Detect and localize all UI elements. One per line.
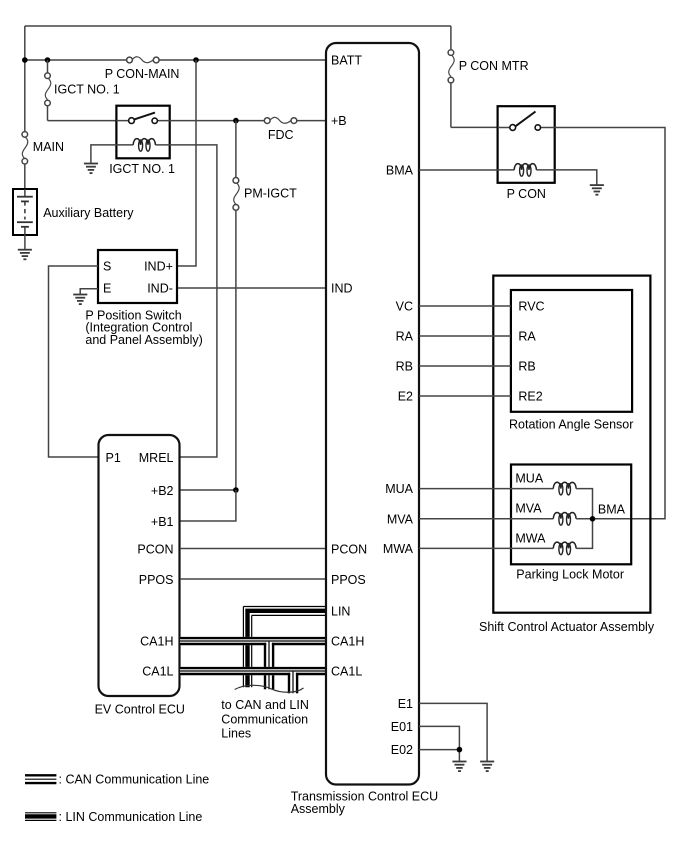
svg-text:BMA: BMA [386, 164, 414, 178]
relay K1 IGCT NO. 1 [116, 106, 169, 159]
wire VC [419, 305, 511, 307]
svg-text:and Panel Assembly): and Panel Assembly) [85, 333, 202, 347]
junction dot IND+ branch [193, 57, 199, 63]
wire MVA [419, 518, 553, 520]
CAN line CA1L [180, 667, 326, 675]
wire MUA coil to BMA node [576, 489, 592, 519]
svg-text:VC: VC [396, 300, 413, 314]
relay K2 P CON [498, 106, 555, 183]
CAN line CA1H [180, 637, 326, 645]
CAN CA1L drop vertical [289, 672, 297, 694]
junction dot IGCT branch [45, 57, 51, 63]
svg-text:CA1L: CA1L [331, 665, 362, 679]
wire left vertical from top rail to MAIN fuse [24, 26, 26, 132]
svg-text:RE2: RE2 [518, 390, 542, 404]
svg-text:Lines: Lines [221, 726, 251, 740]
svg-text:MVA: MVA [387, 512, 414, 526]
wire BMA to P CON coil [419, 169, 498, 171]
svg-text:E1: E1 [398, 697, 413, 711]
svg-text:PCON: PCON [331, 542, 367, 556]
svg-text:P CON MTR: P CON MTR [459, 59, 529, 73]
svg-text:+B: +B [331, 114, 347, 128]
svg-text:PM-IGCT: PM-IGCT [244, 187, 297, 201]
svg-text:CA1H: CA1H [331, 635, 364, 649]
svg-text:IND+: IND+ [144, 260, 173, 274]
LIN communication line elbow [243, 607, 325, 688]
wire E01 [419, 726, 459, 749]
wire relay coil to MREL [170, 145, 217, 457]
svg-text:MWA: MWA [515, 531, 546, 545]
svg-text:RA: RA [518, 330, 536, 344]
CAN CA1H drop vertical [265, 642, 273, 690]
coil motor U phase [553, 482, 576, 495]
ground P CON coil [590, 185, 604, 195]
svg-text:MVA: MVA [515, 502, 542, 516]
svg-text:RB: RB [518, 360, 535, 374]
wire P CON coil to ground [555, 170, 597, 185]
wire RB [419, 365, 511, 367]
wire horizontal rail y=60 to BATT [25, 59, 326, 61]
svg-text:Assembly: Assembly [291, 802, 346, 816]
svg-text:E: E [103, 282, 111, 296]
coil motor W phase [553, 542, 576, 555]
ground relay coil [84, 164, 98, 174]
wire top battery rail [25, 25, 451, 27]
svg-text:Parking Lock Motor: Parking Lock Motor [516, 568, 624, 582]
ground battery [18, 250, 32, 260]
svg-text:CA1H: CA1H [140, 635, 173, 649]
svg-text:FDC: FDC [268, 128, 294, 142]
fuse P CON-MAIN [127, 57, 160, 63]
legend CAN line sample [25, 775, 56, 783]
wire MWA [419, 547, 553, 549]
svg-text:RB: RB [396, 360, 413, 374]
svg-text:+B2: +B2 [151, 484, 174, 498]
wire relay coil to ground [91, 145, 117, 164]
svg-text:IND: IND [331, 282, 353, 296]
svg-text:RVC: RVC [518, 300, 544, 314]
junction dot +B2/+B1 [233, 487, 239, 493]
fuse P CON MTR [448, 50, 454, 83]
wire +B2 [180, 489, 236, 491]
svg-text:MWA: MWA [383, 542, 414, 556]
wire MAIN fuse to battery [24, 164, 26, 189]
svg-text:P CON: P CON [507, 187, 546, 201]
svg-text:PPOS: PPOS [331, 573, 366, 587]
svg-text:Auxiliary Battery: Auxiliary Battery [43, 206, 134, 220]
svg-text:: CAN Communication Line: : CAN Communication Line [59, 772, 210, 786]
svg-text:MUA: MUA [515, 471, 543, 485]
EV Control ECU box U2 [99, 435, 180, 696]
svg-text:E2: E2 [398, 390, 413, 404]
wire P CON switch to motor BMA [555, 128, 665, 519]
wire IND- to IND [178, 287, 326, 289]
wire PM-IGCT branch vertical [235, 121, 237, 490]
svg-text:RA: RA [396, 330, 414, 344]
Rotation Angle Sensor box U3 [511, 290, 632, 412]
legend LIN line sample [25, 813, 56, 821]
fuse FDC [264, 117, 296, 123]
svg-text:P1: P1 [106, 451, 121, 465]
ground E1 [480, 762, 494, 772]
junction dot FDC / PM-IGCT [233, 118, 239, 124]
wire IGCT NO.1 fuse branch [48, 60, 116, 121]
svg-text:IND-: IND- [147, 282, 173, 296]
wire IND+ branch [178, 60, 197, 266]
svg-text:IGCT NO. 1: IGCT NO. 1 [109, 162, 175, 176]
wire RA [419, 335, 511, 337]
wire E pin to ground [80, 289, 98, 295]
svg-text:E02: E02 [391, 743, 413, 757]
svg-text:BATT: BATT [331, 54, 362, 68]
svg-text:LIN: LIN [331, 604, 350, 618]
svg-text:PPOS: PPOS [139, 573, 174, 587]
ground E02 [452, 762, 466, 772]
wire PPOS [180, 578, 326, 580]
svg-text:MUA: MUA [385, 482, 413, 496]
fuse MAIN [22, 132, 28, 164]
Parking Lock Motor box M1 [511, 465, 631, 565]
wire battery to ground [24, 235, 26, 250]
svg-text:Communication: Communication [221, 712, 308, 726]
battery B auxiliary [13, 189, 37, 235]
wire +B1 [180, 490, 236, 521]
coil motor V phase [553, 512, 576, 525]
svg-text:BMA: BMA [598, 502, 626, 516]
svg-text:EV Control ECU: EV Control ECU [95, 703, 185, 717]
svg-text:P CON-MAIN: P CON-MAIN [105, 67, 180, 81]
wire MUA [419, 488, 553, 490]
svg-text:CA1L: CA1L [142, 665, 173, 679]
squiggle break mark [235, 685, 304, 692]
junction dot left rail [22, 57, 28, 63]
svg-text:S: S [103, 260, 111, 274]
junction dot E01/E02 [457, 747, 463, 753]
wire FDC to +B pin [297, 120, 326, 122]
fuse PM-IGCT [233, 178, 239, 211]
wire P CON MTR from top rail [451, 26, 497, 127]
junction dot BMA node [590, 516, 596, 522]
switch SW1 P position switch box [98, 250, 177, 303]
ground E pin [73, 295, 87, 305]
svg-text:IGCT NO. 1: IGCT NO. 1 [54, 83, 120, 97]
fuse IGCT NO. 1 [45, 73, 51, 106]
svg-text:+B1: +B1 [151, 515, 174, 529]
svg-text:Shift Control Actuator Assembl: Shift Control Actuator Assembly [479, 620, 655, 634]
svg-text:: LIN Communication Line: : LIN Communication Line [59, 810, 203, 824]
wire S pin to P1 [49, 266, 100, 457]
svg-text:E01: E01 [391, 720, 413, 734]
wire E2 [419, 395, 511, 397]
svg-text:Rotation Angle Sensor: Rotation Angle Sensor [509, 418, 633, 432]
wire MWA coil to BMA node [576, 519, 592, 549]
wire E1 to ground [419, 703, 487, 761]
wire PCON [180, 548, 326, 550]
svg-text:MAIN: MAIN [33, 140, 64, 154]
wire MVA coil to BMA node [576, 518, 592, 520]
Transmission Control ECU box U1 [326, 43, 419, 785]
wire relay switch output to FDC [170, 120, 265, 122]
svg-text:to CAN and LIN: to CAN and LIN [221, 698, 309, 712]
wire E02 to ground [419, 750, 459, 762]
svg-text:MREL: MREL [139, 451, 174, 465]
svg-text:PCON: PCON [137, 542, 173, 556]
Shift Control Actuator Assembly box [493, 276, 650, 613]
